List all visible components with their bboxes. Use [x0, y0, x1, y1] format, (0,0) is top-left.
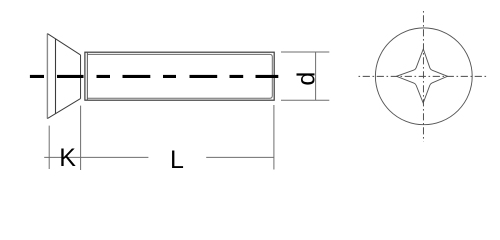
head cone bottom diagonal	[47, 99, 80, 119]
d top extension line	[281, 51, 329, 53]
head cone top diagonal	[47, 34, 80, 55]
thread minor diameter lines	[87, 54, 272, 98]
centerline dash 5	[163, 75, 176, 78]
L dimension line right segment	[206, 156, 274, 158]
K right / L left extension line	[80, 106, 82, 170]
svg-text:K: K	[59, 144, 76, 172]
centerline dash 7	[230, 75, 244, 78]
phillips recess star	[397, 49, 448, 103]
svg-text:d: d	[293, 72, 321, 86]
thread start vertical	[86, 52, 88, 100]
L right extension line	[273, 105, 275, 170]
head/cone junction vertical	[80, 55, 82, 99]
end view vertical centerline	[422, 11, 424, 142]
d dimension line	[315, 52, 317, 100]
centerline dash 2	[57, 75, 84, 78]
K/L dimension line left segment	[44, 156, 148, 158]
d bottom extension line	[281, 99, 329, 101]
shank outer outline	[85, 52, 274, 100]
screw head face (left vertical)	[46, 34, 48, 119]
end view circle	[375, 28, 472, 125]
centerline dash 6	[190, 75, 218, 78]
centerline dash 3	[97, 75, 111, 78]
screw head recess depth line	[55, 39, 57, 114]
end view horizontal centerline	[359, 75, 489, 77]
centerline dash 8	[256, 75, 279, 78]
svg-text:L: L	[170, 146, 184, 174]
centerline dash 1	[30, 75, 44, 78]
K left extension line	[48, 126, 50, 169]
centerline dash 4	[123, 75, 151, 78]
